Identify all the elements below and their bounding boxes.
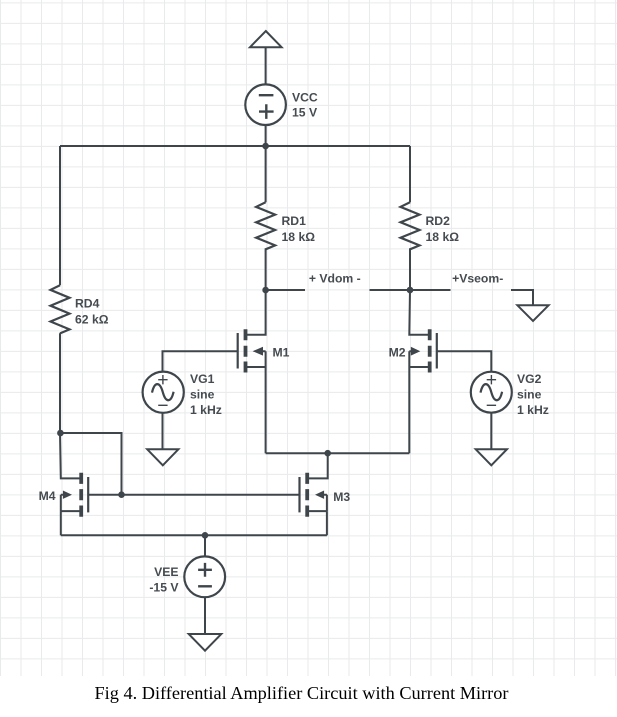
svg-text:RD4: RD4: [75, 297, 100, 311]
wire left column lower: [59, 333, 61, 433]
svg-text:VCC: VCC: [292, 91, 318, 105]
wire VEE to ground: [204, 598, 206, 635]
VCC power arrow symbol: [250, 31, 282, 47]
wire M3 source down: [326, 511, 328, 535]
wire M3 drain drop: [307, 453, 328, 478]
node drain M2: [407, 287, 414, 294]
svg-text:sine: sine: [517, 388, 542, 402]
label VCC 15 V: [292, 91, 318, 120]
transistor M4: [61, 473, 88, 517]
wire RD2 bottom to node: [409, 248, 411, 290]
wire left column upper: [59, 146, 61, 285]
svg-text:sine: sine: [190, 388, 215, 402]
wire VCC arrow stem: [265, 47, 267, 84]
transistor M2: [409, 329, 437, 372]
resistor RD1: [256, 202, 275, 249]
svg-text:RD1: RD1: [282, 214, 307, 228]
label RD1 18 kOhm: [282, 214, 316, 244]
label M3: [333, 490, 350, 504]
ground VG2: [476, 449, 507, 465]
ground VEE: [189, 634, 222, 651]
label + Vdom -: [309, 271, 361, 285]
node junction top rail: [262, 143, 269, 150]
svg-text:15 V: 15 V: [292, 105, 318, 119]
label VEE -15 V: [149, 565, 179, 595]
source VCC circle: [245, 84, 286, 125]
transistor M1: [238, 329, 266, 372]
svg-text:VG1: VG1: [190, 372, 215, 386]
svg-text:VG2: VG2: [517, 372, 542, 386]
svg-text:1 kHz: 1 kHz: [517, 403, 549, 417]
wire M1 source down: [265, 367, 267, 453]
resistor RD2: [401, 202, 420, 249]
svg-text:+ Vdom -: + Vdom -: [309, 271, 361, 285]
node M4 gate junction: [118, 491, 125, 498]
ground right output: [517, 305, 548, 321]
wire M2 drain: [409, 290, 429, 335]
node tail junction: [324, 450, 331, 457]
label +Vseom-: [452, 272, 503, 286]
wire top rail: [60, 145, 410, 147]
svg-text:VEE: VEE: [154, 565, 178, 579]
wire M4 source down: [60, 511, 62, 535]
svg-text:1 kHz: 1 kHz: [190, 403, 222, 417]
svg-text:62 kΩ: 62 kΩ: [75, 313, 109, 327]
svg-text:M3: M3: [333, 490, 350, 504]
wire Vseom left stub: [410, 289, 451, 291]
node VEE junction: [202, 532, 209, 539]
wire RD4 to gate line: [60, 433, 122, 495]
wire RD1 top: [265, 146, 267, 202]
wire RD2 top: [409, 146, 411, 202]
label M2: [389, 345, 406, 359]
source VEE circle: [184, 556, 225, 597]
source VG1 sine: [143, 372, 184, 413]
label RD2 18 kOhm: [426, 214, 460, 244]
label RD4 62 kOhm: [75, 297, 109, 327]
wire M1 drain: [246, 290, 266, 335]
wire RD1 bottom to node: [265, 248, 267, 290]
label M1: [273, 345, 290, 359]
node drain M1: [262, 287, 269, 294]
wire Vdom left stub: [266, 289, 305, 291]
node RD4 bottom junction: [57, 430, 64, 437]
wire Vdom right stub: [370, 289, 411, 291]
svg-text:18 kΩ: 18 kΩ: [426, 230, 460, 244]
wire VG1 to ground: [162, 413, 164, 450]
label VG1 sine 1 kHz: [190, 372, 222, 417]
wire VEE drop: [204, 535, 206, 557]
wire M2 gate to VG2: [437, 351, 492, 372]
svg-text:M1: M1: [273, 345, 290, 359]
wire gate line M4 to M3: [88, 494, 299, 496]
wire M2 source down: [408, 367, 410, 453]
svg-text:+Vseom-: +Vseom-: [452, 272, 503, 286]
wire M4 drain: [60, 433, 81, 478]
label M4: [39, 489, 56, 503]
label VG2 sine 1 kHz: [517, 372, 549, 417]
caption: [0, 683, 610, 704]
resistor RD4: [51, 285, 70, 333]
wire tail rail: [266, 452, 410, 454]
transistor M3: [300, 473, 327, 517]
svg-text:RD2: RD2: [426, 214, 451, 228]
ground VG1: [147, 449, 178, 465]
wire M1 gate to VG1: [163, 351, 238, 372]
svg-text:18 kΩ: 18 kΩ: [282, 230, 316, 244]
svg-text:M2: M2: [389, 345, 406, 359]
svg-text:M4: M4: [39, 489, 56, 503]
wire bottom rail: [61, 534, 327, 536]
wire Vseom right stub: [511, 290, 533, 305]
wire VG2 to ground: [490, 413, 492, 450]
wire VCC to rail: [265, 125, 267, 146]
source VG2 sine: [471, 372, 512, 413]
svg-text:-15 V: -15 V: [149, 581, 179, 595]
